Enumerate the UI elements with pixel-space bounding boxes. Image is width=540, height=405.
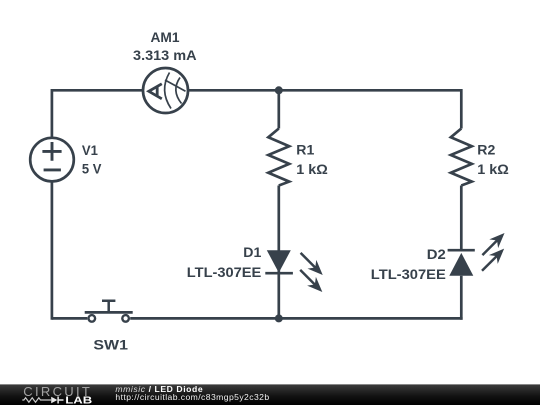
svg-text:LTL-307EE: LTL-307EE	[371, 267, 446, 282]
footer credit text	[115, 385, 315, 393]
label D2	[427, 247, 446, 262]
label AM1	[151, 30, 181, 45]
node B (bottom junction)	[275, 314, 283, 322]
value label 1 kOhm (R2)	[477, 162, 509, 177]
wire right lower (R2/D2 branch)	[460, 186, 463, 320]
voltage source V1	[30, 138, 74, 182]
LED D1	[265, 249, 327, 297]
value label 1 kOhm (R1)	[296, 162, 328, 177]
switch SW1	[85, 301, 133, 322]
label R2	[477, 143, 495, 158]
svg-text:1 kΩ: 1 kΩ	[296, 162, 328, 177]
value label 5 V	[82, 161, 102, 176]
CircuitLab logo	[0, 384, 100, 405]
node A (top junction)	[275, 86, 283, 94]
value label LTL-307EE (D1)	[187, 265, 262, 280]
label D1	[243, 245, 262, 260]
svg-text:LTL-307EE: LTL-307EE	[187, 265, 262, 280]
LED D2	[448, 229, 509, 276]
label R1	[296, 143, 315, 158]
wire left + top + right upper	[52, 90, 461, 319]
wire middle vertical (R1/D1 branch)	[277, 90, 280, 318]
resistor R1	[268, 129, 289, 186]
svg-text:AM1: AM1	[151, 30, 181, 45]
footer bar	[0, 384, 540, 405]
svg-text:SW1: SW1	[93, 337, 128, 352]
svg-text:LAB: LAB	[65, 396, 92, 405]
svg-text:3.313 mA: 3.313 mA	[133, 48, 197, 63]
svg-text:V1: V1	[82, 143, 99, 158]
svg-text:R2: R2	[477, 143, 495, 158]
svg-text:D2: D2	[427, 247, 446, 262]
svg-text:5 V: 5 V	[82, 161, 102, 176]
label V1	[82, 143, 99, 158]
svg-text:D1: D1	[243, 245, 262, 260]
label SW1	[93, 337, 128, 352]
resistor R2	[451, 129, 472, 186]
ammeter AM1	[143, 68, 188, 113]
svg-text:1 kΩ: 1 kΩ	[477, 162, 509, 177]
svg-text:R1: R1	[296, 143, 315, 158]
value label 3.313 mA	[133, 48, 197, 63]
value label LTL-307EE (D2)	[371, 267, 446, 282]
wire bottom	[52, 317, 463, 320]
